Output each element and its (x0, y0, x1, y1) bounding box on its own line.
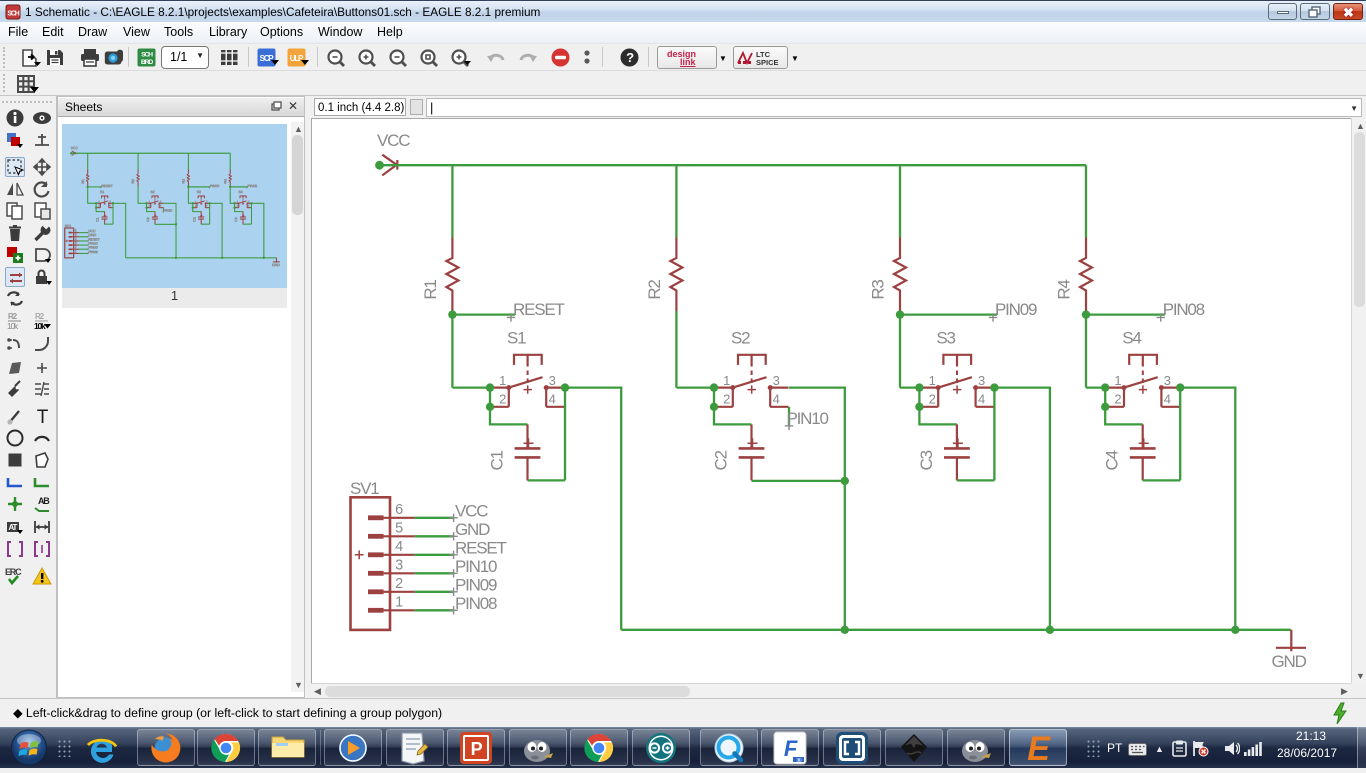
svg-text:E: E (1027, 731, 1051, 765)
svg-text:SCH: SCH (141, 51, 153, 58)
svg-text:T: T (37, 407, 49, 426)
svg-text:BRD: BRD (141, 59, 153, 66)
svg-text:10k: 10k (34, 321, 46, 331)
svg-text:SCP: SCP (260, 54, 275, 63)
svg-text:R2: R2 (35, 312, 45, 321)
svg-text:ERC: ERC (5, 567, 22, 577)
svg-text:10k: 10k (7, 321, 19, 331)
svg-text:SCH: SCH (7, 11, 19, 18)
svg-text:R2: R2 (8, 312, 18, 321)
svg-text:P: P (471, 739, 483, 759)
svg-text:AB: AB (38, 496, 50, 506)
svg-text:AT: AT (9, 523, 18, 532)
svg-text:ULP: ULP (290, 54, 304, 63)
